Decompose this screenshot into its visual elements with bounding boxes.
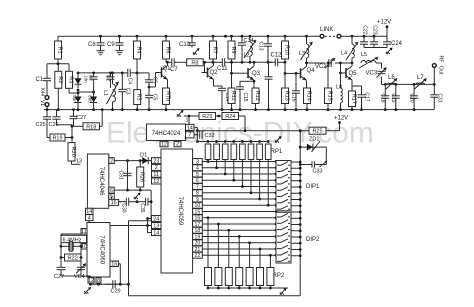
junction Q4 collector tap — [305, 62, 308, 65]
pin 6 of 74HC4059 — [193, 177, 203, 184]
junction DIP row 4 — [275, 166, 278, 169]
inductor L4 variable — [346, 42, 358, 60]
junction RP1 top 2 — [215, 140, 218, 143]
capacitor C2 — [107, 73, 115, 84]
junction Q1 collector node — [166, 61, 169, 64]
pin 6 of 74HC4046 — [109, 187, 114, 194]
junction RP2-1 to row — [207, 216, 210, 219]
junction R1 bottom — [57, 62, 60, 65]
svg-text:Q4: Q4 — [307, 68, 316, 74]
capacitor C24 — [383, 36, 391, 47]
junction RP2-6 to row — [259, 248, 262, 251]
svg-text:R3: R3 — [68, 76, 74, 83]
svg-text:C24: C24 — [391, 41, 403, 47]
wire down to oscillator ground node — [128, 221, 130, 285]
wire R23 R24 — [216, 115, 223, 117]
svg-text:74HC4024: 74HC4024 — [152, 131, 181, 137]
wire L4 top — [351, 36, 353, 44]
junction C35 to vertical — [150, 200, 153, 203]
wire jam input 5 — [202, 173, 276, 175]
junction C16 tap — [295, 72, 298, 75]
capacitor VC3 trimmer — [377, 68, 387, 78]
junction +12V stub — [386, 26, 389, 29]
pin 14 of 74HC4046 — [86, 208, 94, 215]
wire emitter to R12 — [254, 87, 256, 89]
capacitor C3 — [118, 73, 126, 110]
svg-text:R17: R17 — [351, 94, 357, 104]
pin 8 of 74HC4060 — [96, 278, 101, 284]
svg-text:C12: C12 — [271, 53, 283, 59]
wire bank mid join — [78, 91, 94, 93]
capacitor C12 series — [268, 58, 285, 66]
wire bias jog Q4 — [284, 62, 286, 73]
wire C31 branch — [127, 161, 129, 191]
wire DIP out y161.5 — [291, 161, 300, 163]
capacitor C9 — [116, 36, 124, 49]
junctions pin6 line — [126, 189, 142, 192]
pin 2 of 74HC4059 — [152, 164, 162, 171]
junction DIP row 15 — [275, 210, 278, 213]
wire Q1 emitter — [167, 80, 169, 89]
resistor R3 — [66, 64, 74, 93]
junctions pin14 riser — [196, 129, 199, 143]
svg-text:C11: C11 — [217, 66, 228, 72]
svg-text:Q2: Q2 — [210, 70, 219, 76]
junction C3 C4 — [121, 72, 124, 75]
svg-text:2: 2 — [176, 142, 179, 148]
svg-text:12: 12 — [161, 142, 167, 148]
transistor Q2 — [202, 66, 214, 80]
wire C26 to node X — [57, 124, 73, 126]
junction DIP out rail y255.25 — [299, 254, 302, 257]
switch DIP2 — [276, 212, 320, 263]
capacitor C16 — [292, 73, 300, 109]
svg-text:11: 11 — [153, 172, 159, 178]
transistor Q4 — [295, 66, 307, 80]
resistor RP2-5 — [246, 268, 253, 286]
junction DIP row 8 — [275, 191, 278, 194]
capacitor C27 osc — [57, 266, 66, 274]
junction DIP row 6 — [275, 179, 278, 182]
svg-text:16: 16 — [111, 200, 117, 206]
wire DIP out y217.75 — [291, 217, 300, 219]
svg-text:C13: C13 — [258, 41, 264, 50]
inductor L5 variable — [359, 57, 378, 68]
svg-text:D1: D1 — [140, 153, 147, 159]
svg-text:C20: C20 — [408, 93, 414, 102]
junction RP2 bottom 1 — [207, 287, 210, 290]
wire Q3 emitter — [253, 80, 255, 88]
svg-text:DIP2: DIP2 — [306, 237, 320, 243]
junctions pin2 line — [126, 159, 142, 162]
wire RP2-5 to common — [249, 286, 251, 289]
wire jam input 19 — [202, 236, 276, 238]
wire bottom rail — [129, 295, 301, 297]
wire R24 out — [239, 115, 246, 117]
junction RP2-3 to row — [227, 229, 230, 232]
diode D5 varicap — [75, 93, 82, 106]
svg-text:13: 13 — [76, 159, 82, 165]
junction RP2 bottom 5 — [248, 287, 251, 290]
wire C26 down — [56, 121, 58, 125]
junctions node X — [71, 125, 74, 139]
junction RP2-7 to row — [269, 254, 272, 257]
junction DIP row 16 — [275, 216, 278, 219]
wire varicap top — [78, 72, 122, 74]
wire R3 to varicap bank — [69, 92, 78, 94]
wire R19 to node X — [65, 137, 72, 139]
svg-text:C33: C33 — [313, 169, 323, 175]
junction DIP out rail y249.0 — [299, 248, 302, 251]
junction RP2 bottom 4 — [238, 287, 241, 290]
resistor RP2-1 — [205, 268, 212, 286]
junction C30 C35 — [136, 200, 139, 203]
capacitor C21 out — [430, 84, 438, 109]
resistor R4 — [134, 36, 142, 73]
wire RP1-5 dropper — [241, 160, 243, 187]
svg-text:C9: C9 — [107, 42, 115, 48]
junction DIP row 21 — [275, 248, 278, 251]
svg-text:+12V: +12V — [334, 116, 348, 122]
pin 14 of 74HC4024 — [186, 124, 195, 131]
wire R6 bottom to collector — [166, 61, 168, 63]
inductor L8 choke — [341, 88, 343, 103]
wire pin11 to crystal left — [61, 233, 81, 235]
wire RP1-4 dropper — [233, 160, 235, 181]
svg-text:DIP1: DIP1 — [306, 184, 320, 190]
wire jam input 20 — [202, 242, 276, 244]
wire L2 bottom — [249, 56, 251, 62]
capacitor C27 — [70, 110, 78, 127]
junction DIP out rail y199.0 — [299, 198, 302, 201]
resistor R24 — [222, 113, 239, 121]
wire Q4 base line — [285, 72, 295, 74]
wire RP2-7 riser — [269, 255, 271, 267]
svg-text:13: 13 — [153, 223, 159, 229]
resistor R5 — [134, 73, 142, 110]
svg-text:L3: L3 — [299, 51, 305, 57]
junction RP1 top 4 — [232, 140, 235, 143]
junctions 4060 ground node — [89, 283, 130, 286]
wire jam input 6 — [202, 179, 276, 181]
wire bias jog Q3 — [231, 62, 233, 73]
svg-text:R12: R12 — [254, 91, 260, 101]
svg-text:23: 23 — [153, 158, 159, 164]
wire DIP out y211.5 — [291, 211, 300, 213]
junction RP1-3 to row — [224, 173, 227, 176]
svg-text:C31: C31 — [118, 170, 124, 179]
resistor RP1-2 — [214, 144, 220, 160]
wire +12V riser — [339, 123, 341, 131]
junction DIP row 9 — [275, 198, 278, 201]
wire DIP out y242.75 — [291, 242, 300, 244]
svg-text:R7: R7 — [212, 46, 218, 53]
wire DIP out y236.5 — [291, 236, 300, 238]
wire RP1-6 dropper — [250, 160, 252, 193]
svg-text:55n: 55n — [72, 95, 77, 103]
resistor RP1-5 — [240, 144, 246, 160]
transistor Q3 — [242, 66, 254, 80]
wire VC4 bottom — [80, 274, 82, 276]
junction R10 C12 — [284, 61, 287, 64]
capacitor C4 series — [122, 69, 137, 77]
svg-text:C18: C18 — [380, 93, 386, 102]
pin 10 of 74HC4060 — [81, 244, 87, 250]
svg-text:VC4: VC4 — [74, 274, 85, 280]
junctions ZD1 rail — [299, 146, 302, 166]
ground arrow RP1 — [275, 136, 282, 143]
wire Q2 emitter — [213, 80, 215, 87]
resistor RP2-2 — [215, 268, 222, 286]
capacitor C26 — [53, 110, 61, 121]
wire right rail — [299, 131, 301, 296]
svg-text:R4: R4 — [136, 46, 142, 53]
junctions filter — [384, 83, 436, 86]
svg-text:RP1: RP1 — [271, 149, 283, 155]
wire emitter to C17 — [352, 85, 362, 87]
resistor R19 — [50, 134, 65, 142]
resistor RP2-6 — [257, 268, 264, 286]
svg-text:R11: R11 — [230, 91, 236, 101]
wire DIP out y199.0 — [291, 199, 300, 201]
wire RP2-4 to common — [238, 286, 240, 289]
wire RP2-3 riser — [228, 230, 230, 267]
capacitor C6 — [145, 87, 153, 110]
svg-text:R9: R9 — [230, 46, 236, 53]
svg-text:RF: RF — [438, 55, 444, 63]
wire clock vertical — [147, 219, 149, 233]
junction RP2 bottom 7 — [269, 287, 272, 290]
junction DIP row 5 — [275, 173, 278, 176]
junction RP1-6 to row — [250, 191, 253, 194]
resistor RP1-1 — [205, 144, 211, 160]
ground under C9 — [116, 50, 124, 55]
svg-text:R23: R23 — [202, 114, 212, 120]
svg-text:R1: R1 — [57, 46, 63, 53]
svg-text:C16: C16 — [290, 92, 296, 101]
junctions clock vertical — [146, 217, 149, 227]
pin 22 of 74HC4059 — [193, 252, 203, 259]
pin 24 of 74HC4059 — [152, 216, 162, 223]
svg-text:Out: Out — [438, 66, 444, 75]
wire RP2-1 riser — [207, 218, 209, 268]
resistor R10 — [282, 36, 290, 62]
junction C13 — [267, 61, 270, 64]
wire RP2-6 riser — [259, 249, 261, 268]
junction RP1 top 5 — [241, 140, 244, 143]
wire Q2 collector — [213, 62, 215, 65]
svg-text:+12V: +12V — [377, 20, 391, 26]
wire Q5 emitter — [351, 80, 353, 91]
transistor Q5 — [340, 66, 352, 80]
svg-text:R22: R22 — [68, 256, 78, 262]
junction DIP out rail y167.75 — [299, 167, 302, 170]
terminal V1 input top — [45, 96, 49, 100]
svg-text:R7b: R7b — [165, 91, 171, 101]
pin 2 of 74HC4024 bottom — [174, 141, 181, 147]
svg-text:C32: C32 — [205, 133, 215, 139]
svg-text:R5: R5 — [136, 94, 142, 101]
svg-text:R26: R26 — [139, 172, 145, 182]
svg-text:R2: R2 — [57, 76, 63, 83]
wire jam input 9 — [202, 198, 276, 200]
svg-text:C35: C35 — [139, 203, 145, 212]
wire pin16 out 4060 — [119, 263, 121, 265]
wire +12V top rail left segment — [58, 35, 320, 37]
junction DIP out rail y217.75 — [299, 217, 302, 220]
wire decoupling common — [364, 47, 387, 49]
label 6.4MHz box — [61, 235, 87, 242]
wire LINK dashed — [325, 35, 336, 37]
junction RP1-5 to row — [241, 185, 244, 188]
resistor R12 — [252, 88, 260, 110]
capacitor C10 — [188, 36, 196, 47]
pin 11 of 74HC4059 — [152, 171, 162, 178]
capacitor bypass Q3 — [265, 62, 273, 109]
wire pin13 stub — [148, 225, 152, 227]
resistor R20 — [68, 143, 76, 161]
wire pin24 stub — [148, 218, 152, 220]
svg-text:L2: L2 — [244, 53, 250, 59]
junction DIP row 20 — [275, 241, 278, 244]
wire crystal left lead — [61, 245, 66, 247]
wire RP1 common rail — [197, 141, 269, 143]
capacitor C19 — [392, 84, 400, 109]
resistor R17 — [349, 91, 357, 110]
junction RP2 bottom 3 — [227, 287, 230, 290]
pin 19 of 74HC4059 — [193, 234, 203, 241]
junctions bus 131 — [244, 129, 302, 132]
op-amp U4 74HC4060 — [87, 223, 110, 278]
resistor R14 — [304, 88, 312, 110]
svg-text:16: 16 — [111, 261, 117, 267]
svg-text:L1: L1 — [102, 90, 108, 96]
junction DIP out rail y192.75 — [299, 192, 302, 195]
junction Q3 collector — [253, 61, 256, 64]
svg-text:LINK: LINK — [320, 27, 333, 33]
svg-text:C4: C4 — [127, 78, 133, 85]
junction RP1 top 3 — [224, 140, 227, 143]
pin 23 of 74HC4059 — [152, 158, 162, 165]
wire 4046 pins down — [88, 221, 90, 226]
pin 5 of 74HC4059 — [193, 171, 203, 178]
pin 7 of 74HC4024 — [186, 132, 195, 139]
wire RP1-1 dropper — [207, 160, 209, 162]
svg-text:605: 605 — [88, 95, 93, 103]
junction DIP row 22 — [275, 254, 278, 257]
capacitor C22 — [360, 36, 368, 47]
resistor RP2-4 — [236, 268, 243, 286]
wire Q4 emitter — [306, 80, 308, 88]
wire crystal right rail — [80, 246, 82, 266]
capacitor C29 — [105, 280, 118, 288]
wire pin14 out — [194, 126, 197, 128]
wire RP2-6 to common — [259, 286, 261, 289]
capacitor C7 series — [168, 58, 187, 66]
svg-text:R24: R24 — [225, 114, 235, 120]
capacitor VC2 trimmer — [325, 58, 335, 68]
wire +12V drop — [386, 25, 388, 36]
wire RP2-3 to common — [228, 286, 230, 289]
svg-text:C5: C5 — [152, 77, 158, 84]
svg-text:ZD1: ZD1 — [309, 137, 319, 143]
wire DIP out y174.0 — [291, 174, 300, 176]
junctions signal line — [203, 61, 214, 64]
wire RF out — [433, 68, 435, 84]
junction pin1 bus — [188, 115, 191, 118]
junction DIP out rail y211.5 — [299, 211, 302, 214]
ground arrow under C10 — [193, 48, 200, 55]
ground arrow at R23 bus — [177, 110, 184, 117]
svg-text:Q3: Q3 — [252, 71, 261, 77]
diode D1 — [141, 157, 150, 164]
junction DIP out rail y242.75 — [299, 242, 302, 245]
svg-text:VC2: VC2 — [315, 64, 327, 70]
wire Q1 collector — [167, 62, 169, 65]
wire R18 up to ground rail — [101, 110, 103, 127]
resistor R13 — [282, 73, 290, 109]
resistor R9 — [228, 36, 236, 62]
pin 10 of 74HC4059 — [193, 202, 203, 209]
pin 16 of 74HC4060 — [110, 261, 119, 267]
junction +12V mid stub — [338, 121, 341, 124]
wire C25 to R19 — [47, 137, 50, 139]
wire VC2 to Q5 node — [335, 62, 352, 64]
wire RP1-7 dropper — [259, 160, 261, 200]
wire jam input 17 — [202, 223, 276, 225]
wire jam input 8 — [202, 192, 276, 194]
ground arrow RP2 — [280, 288, 287, 295]
junction DIP row 17 — [275, 223, 278, 226]
wire RP2-7 to common — [269, 286, 271, 289]
inductor L3 variable — [301, 42, 313, 60]
wire loop filter return — [129, 220, 152, 222]
ground under C8 — [97, 50, 105, 55]
wire vc4 stubs — [80, 266, 82, 267]
inductor L7 variable — [414, 78, 427, 89]
wire +12V top rail right segment — [342, 35, 388, 37]
wire 4060 ground node — [91, 283, 129, 285]
resistor R25 — [309, 127, 326, 135]
diode D2 varicap — [75, 75, 82, 89]
wire VC3 riser — [381, 63, 383, 69]
junctions R22 — [60, 256, 83, 259]
pin 16 of 74HC4059 — [193, 215, 203, 222]
wire L2 top — [249, 36, 251, 42]
wire pin2 to pin23 — [114, 160, 151, 162]
junction bank mid — [92, 91, 95, 94]
wire down to Q2 base — [204, 62, 206, 72]
pin 4 of 74HC4046 — [86, 215, 94, 222]
wire L1 top — [112, 73, 114, 84]
resistor RP2-3 — [225, 268, 232, 286]
junctions Q5 input — [327, 62, 354, 65]
diode ZD1 zener — [300, 144, 319, 151]
wire into pin 13 — [72, 163, 81, 165]
svg-text:C27: C27 — [54, 274, 64, 280]
crystal X1 6.4MHz — [66, 241, 76, 251]
terminal LINK right — [337, 34, 341, 38]
junction DIP out rail y236.5 — [299, 236, 302, 239]
junction DIP out rail y230.25 — [299, 229, 302, 232]
wire osc bottom to node — [90, 276, 92, 284]
wire crystal left rail — [60, 234, 62, 266]
junction C34 — [241, 61, 244, 64]
junction L8 tap — [339, 72, 342, 75]
terminal V1 input bottom — [45, 103, 49, 107]
wire base riser Q5 — [340, 63, 342, 73]
pin 2 of 74HC4046 — [109, 158, 114, 165]
